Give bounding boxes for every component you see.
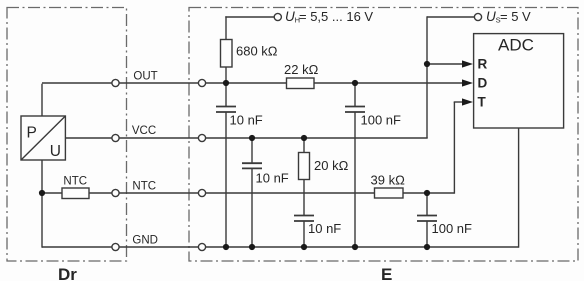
label Dr [58, 265, 77, 284]
svg-text:VCC: VCC [132, 125, 156, 137]
wire US rail horizontal [427, 16, 475, 18]
arrow into pin T [462, 98, 473, 105]
wire x252 vertical VCC to C3 top [251, 138, 253, 163]
junction dot NTC branch left [39, 190, 45, 196]
junction dot VCC/x304 [301, 135, 307, 141]
svg-text:Dr: Dr [58, 265, 77, 281]
wire GND to ADC bottom [518, 128, 520, 248]
svg-text:E: E [381, 265, 392, 281]
wire x427 vertical C5 bottom to GND [426, 221, 428, 247]
svg-text:NTC: NTC [132, 180, 156, 192]
wire T feed horizontal [454, 101, 463, 103]
svg-text:NTC: NTC [63, 175, 87, 187]
svg-text:U: U [50, 143, 61, 160]
svg-text:D: D [478, 76, 488, 91]
resistor R2 22k [284, 62, 319, 89]
wire x355 vertical OUT to C2 top [354, 83, 356, 107]
resistor R1 680k [221, 40, 278, 68]
capacitor C3 10nF [242, 163, 289, 185]
junction dot OUT/680k [223, 80, 229, 86]
node label GND [132, 234, 158, 246]
svg-text:P: P [27, 125, 37, 142]
terminal US supply [474, 13, 481, 20]
wire x226 vertical OUT to C1 top [225, 83, 227, 107]
junction dot GND/x304 [301, 244, 307, 250]
capacitor C2 100nF [345, 107, 401, 128]
resistor R5 NTC [62, 175, 89, 198]
svg-text:100 nF: 100 nF [432, 221, 473, 236]
E enclosure dashed box [189, 8, 578, 262]
svg-text:22 kΩ: 22 kΩ [284, 62, 319, 77]
wire x304 vertical VCC through R 20k to C4 top [303, 138, 305, 216]
terminal UH supply [274, 13, 281, 20]
terminal VCC left [112, 134, 119, 141]
resistor R3 20k [299, 153, 349, 180]
svg-text:= 5,5 ... 16 V: = 5,5 ... 16 V [299, 9, 373, 24]
junction dot GND/x226 [223, 244, 229, 250]
junction dot GND/x355 [352, 244, 358, 250]
svg-text:U: U [285, 9, 295, 24]
net label UH = 5,5 ... 16 V [285, 9, 373, 25]
Dr enclosure dashed box [7, 8, 127, 262]
wire GND row [42, 246, 519, 248]
terminal GND left [112, 243, 119, 250]
svg-text:R: R [478, 57, 488, 72]
resistor R4 39k [371, 173, 406, 199]
capacitor C5 100nF [417, 216, 472, 237]
wire UH rail vertical through R 680k [225, 16, 227, 83]
svg-text:100 nF: 100 nF [361, 112, 402, 127]
node label VCC [132, 125, 156, 137]
wire x252 vertical C3 bottom to GND [251, 168, 253, 247]
node label NTC [132, 180, 156, 192]
junction dot GND/x427 [424, 244, 430, 250]
junction dot NTC/x427 [424, 190, 430, 196]
wire VCC row [65, 137, 427, 139]
terminal OUT right [198, 79, 205, 86]
svg-text:10 nF: 10 nF [308, 221, 341, 236]
sensor U1 P/U box [21, 116, 65, 160]
terminal GND right [198, 243, 205, 250]
svg-text:10 nF: 10 nF [256, 171, 289, 186]
wire T feed vertical [453, 102, 455, 194]
wire sensor bottom to GND [41, 160, 43, 248]
junction dot OUT/x355 [352, 80, 358, 86]
pin label T [478, 95, 487, 110]
node label OUT [133, 70, 157, 82]
svg-text:ADC: ADC [498, 36, 534, 55]
label E [381, 265, 392, 284]
terminal NTC left [112, 189, 119, 196]
svg-text:= 5 V: = 5 V [500, 9, 531, 24]
terminal NTC right [198, 189, 205, 196]
terminal OUT left [112, 79, 119, 86]
arrow into pin D [462, 79, 473, 86]
net label US = 5 V [486, 9, 531, 25]
wire x355 vertical C2 bottom to GND [354, 112, 356, 247]
pin label D [478, 76, 488, 91]
junction dot GND/x252 [249, 244, 255, 250]
capacitor C4 10nF [294, 216, 341, 237]
terminal VCC right [198, 134, 205, 141]
svg-text:T: T [478, 95, 487, 110]
svg-text:GND: GND [132, 234, 158, 246]
svg-text:39 kΩ: 39 kΩ [371, 173, 406, 188]
svg-text:20 kΩ: 20 kΩ [314, 158, 349, 173]
svg-text:10 nF: 10 nF [230, 112, 263, 127]
wire UH rail horizontal [225, 16, 274, 18]
wire x226 vertical C1 bottom to GND [225, 112, 227, 247]
junction dot VCC/x252 [249, 135, 255, 141]
wire x304 vertical C4 bottom to GND [303, 221, 305, 247]
wire US rail vertical to VCC [426, 16, 428, 138]
wire NTC row [42, 192, 454, 194]
ADC block U2 [474, 34, 564, 128]
wire R feed horizontal [427, 63, 463, 65]
junction dot R branch [424, 61, 430, 67]
pin label R [478, 57, 488, 72]
wire x427 vertical NTC to C5 top [426, 193, 428, 216]
arrow into pin R [462, 60, 473, 67]
wire OUT row [42, 82, 463, 84]
capacitor C1 10nF [216, 107, 263, 128]
svg-text:U: U [486, 9, 496, 24]
svg-text:680 kΩ: 680 kΩ [236, 44, 278, 59]
wire sensor top to OUT [41, 84, 43, 116]
svg-text:OUT: OUT [133, 70, 157, 82]
